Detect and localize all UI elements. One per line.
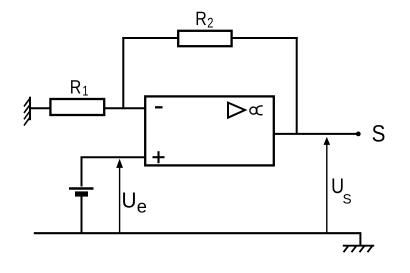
resistor R1 <box>50 99 104 115</box>
arrow Us <box>326 142 328 233</box>
wire feedback branch left vertical <box>122 37 124 108</box>
svg-text:2: 2 <box>207 15 213 31</box>
op-amp plus input sign <box>153 151 165 163</box>
op-amp minus input sign <box>155 106 163 108</box>
ground symbol bottom right <box>343 246 374 253</box>
wire op-amp output <box>275 133 359 135</box>
resistor R2 <box>178 31 231 46</box>
ground bus bottom wire <box>34 232 361 234</box>
svg-text:e: e <box>137 196 147 217</box>
battery source bottom plate <box>75 191 88 196</box>
svg-text:1: 1 <box>82 83 88 99</box>
wire top feedback left segment <box>122 37 179 39</box>
battery source top plate <box>69 187 94 190</box>
infinity gain symbol <box>250 106 263 115</box>
svg-text:S: S <box>372 122 386 148</box>
wire wall to R1 <box>29 107 51 109</box>
svg-text:R: R <box>70 78 82 99</box>
wire feedback branch right vertical <box>296 37 298 134</box>
wire stub to ground symbol <box>359 232 361 246</box>
wire op-amp non-inverting input <box>82 157 147 186</box>
arrow Ue <box>119 165 121 233</box>
op-amp gain triangle <box>228 103 245 118</box>
svg-text:S: S <box>343 192 352 207</box>
svg-text:R: R <box>195 9 207 30</box>
wire R1 to op-amp inverting input <box>104 107 146 109</box>
node S dot <box>356 132 361 137</box>
op-amp U1 box <box>145 96 274 165</box>
svg-text:U: U <box>122 188 137 213</box>
wall ground symbol left of R1 <box>24 97 31 126</box>
wire battery to ground bus <box>81 196 83 234</box>
wire top feedback right segment <box>231 37 298 39</box>
